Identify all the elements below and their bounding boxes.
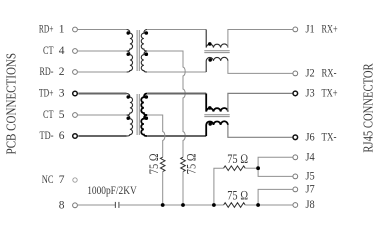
svg-text:RD-: RD- bbox=[40, 66, 54, 78]
terminal pin 6 bbox=[73, 134, 78, 139]
pin 4 CT label bbox=[43, 45, 65, 57]
svg-text:RD+: RD+ bbox=[39, 24, 54, 36]
svg-text:75 Ω: 75 Ω bbox=[146, 153, 161, 174]
label J2 RX- bbox=[306, 67, 337, 79]
T1 phase dot secondary top bbox=[145, 31, 149, 35]
pin 6 TD- label bbox=[40, 130, 65, 142]
choke L1 dot top bbox=[208, 42, 212, 46]
svg-text:J3: J3 bbox=[306, 87, 315, 99]
wire node to J4 and J5 bbox=[258, 157, 292, 176]
terminal pin 2 bbox=[73, 70, 78, 75]
T2 phase dot primary mid bbox=[126, 116, 129, 119]
T2 phase dot secondary mid bbox=[145, 116, 149, 120]
wire choke L2 to J6 bbox=[228, 125, 293, 137]
T2 phase dot primary top bbox=[126, 95, 129, 98]
pin 2 RD- label bbox=[40, 66, 65, 78]
junction dot R1 foot bbox=[161, 203, 165, 207]
svg-text:PCB CONNECTIONS: PCB CONNECTIONS bbox=[5, 53, 20, 155]
terminal pin 3 bbox=[73, 91, 78, 96]
label J6 TX- bbox=[306, 131, 337, 143]
terminal J6 bbox=[293, 135, 298, 140]
svg-text:CT: CT bbox=[43, 45, 54, 57]
wire node to J7 bbox=[258, 189, 292, 205]
svg-text:RX+: RX+ bbox=[322, 23, 338, 35]
wire T2 secondary top to choke L2 (bold) bbox=[147, 93, 206, 95]
transformer T2 secondary winding upper half (bold) bbox=[141, 94, 147, 116]
T1 phase dot primary mid bbox=[126, 52, 129, 55]
wire capacitor to ground rail bbox=[119, 204, 224, 206]
svg-text:TD-: TD- bbox=[40, 130, 54, 142]
wire pin8 to capacitor bbox=[78, 204, 116, 206]
choke L1 bottom winding bbox=[206, 57, 228, 72]
wire pin6 to T2 (bold) bbox=[78, 135, 126, 137]
wire pin5 to T2 CT bbox=[78, 114, 127, 116]
svg-text:1000pF/2KV: 1000pF/2KV bbox=[87, 185, 137, 197]
wire R3 to node bbox=[245, 167, 258, 169]
svg-text:J8: J8 bbox=[306, 199, 315, 211]
terminal pin 4 bbox=[73, 49, 78, 54]
wire T1 secondary CT down to R2 (with hops) bbox=[147, 51, 185, 157]
svg-text:7: 7 bbox=[59, 174, 65, 186]
capacitor C1 plates bbox=[115, 202, 119, 208]
junction dot R3 output node bbox=[256, 166, 260, 170]
svg-text:TX+: TX+ bbox=[322, 87, 338, 99]
resistor R2 75ohm vertical bbox=[181, 157, 186, 171]
svg-text:3: 3 bbox=[59, 88, 65, 100]
wire choke L1 to J1 bbox=[228, 30, 293, 48]
transformer T1 primary winding lower half bbox=[127, 51, 133, 72]
svg-text:6: 6 bbox=[59, 130, 65, 142]
terminal pin 7 NC bbox=[73, 178, 77, 182]
choke L1 top winding bbox=[206, 30, 228, 48]
resistor R4 75ohm horizontal bbox=[224, 203, 246, 208]
terminal J5 bbox=[293, 174, 298, 179]
wire T1 secondary top to choke L1 bbox=[147, 29, 206, 31]
wire pin1 to T1 bbox=[78, 29, 127, 31]
svg-text:J6: J6 bbox=[306, 131, 315, 143]
pin 5 CT label bbox=[43, 109, 65, 121]
transformer T2 primary winding lower half bbox=[127, 115, 133, 136]
transformer T2 secondary winding lower half (bold) bbox=[141, 115, 147, 136]
wire T2 secondary bottom to choke L2 (bold) bbox=[147, 135, 206, 137]
wire T1 secondary bottom to choke L1 bbox=[147, 71, 206, 73]
terminal J4 bbox=[293, 155, 298, 160]
svg-text:RJ45 CONNECTOR: RJ45 CONNECTOR bbox=[361, 63, 376, 153]
choke L2 top winding (bold) bbox=[206, 94, 228, 112]
T2 phase dot secondary top bbox=[145, 95, 149, 99]
junction dot J7 branch bbox=[256, 203, 260, 207]
pin 1 RD+ label bbox=[39, 24, 65, 36]
wire pin4 to T1 CT bbox=[78, 50, 127, 52]
choke L2 bottom winding (bold) bbox=[206, 121, 228, 136]
T1 phase dot secondary mid bbox=[145, 52, 149, 56]
svg-text:4: 4 bbox=[59, 45, 65, 57]
label J1 RX+ bbox=[306, 23, 338, 35]
wire T2 secondary CT down to R1 (with hop) bbox=[147, 115, 165, 157]
terminal J2 bbox=[293, 71, 298, 76]
svg-text:TD+: TD+ bbox=[39, 88, 54, 100]
svg-text:J1: J1 bbox=[306, 23, 315, 35]
svg-text:5: 5 bbox=[59, 109, 65, 121]
resistor R1 75ohm vertical bbox=[160, 157, 165, 171]
svg-text:75 Ω: 75 Ω bbox=[227, 187, 248, 202]
T1 phase dot primary top bbox=[126, 31, 129, 34]
svg-text:J5: J5 bbox=[306, 170, 315, 182]
svg-text:1: 1 bbox=[59, 24, 65, 36]
terminal pin 5 bbox=[73, 113, 78, 118]
wire choke L2 to J3 bbox=[228, 93, 293, 111]
svg-text:NC: NC bbox=[42, 174, 54, 186]
choke L2 dot bottom bbox=[208, 122, 212, 126]
wire choke L1 to J2 bbox=[228, 61, 293, 74]
choke L2 dot top bbox=[208, 106, 212, 110]
transformer T1 secondary winding upper half bbox=[141, 30, 147, 52]
svg-text:J4: J4 bbox=[306, 151, 315, 163]
pin 7 NC label bbox=[42, 174, 65, 186]
transformer T1 core bbox=[137, 30, 139, 71]
wire rail branch up to R3 bbox=[214, 168, 224, 205]
svg-text:75 Ω: 75 Ω bbox=[227, 151, 248, 166]
choke L1 core bbox=[204, 51, 229, 53]
transformer T1 secondary winding lower half bbox=[141, 51, 147, 72]
resistor R3 75ohm horizontal bbox=[224, 166, 246, 171]
terminal J7 bbox=[293, 187, 298, 192]
transformer T2 core bbox=[137, 94, 139, 135]
label J3 TX+ bbox=[306, 87, 338, 99]
svg-text:RX-: RX- bbox=[322, 67, 337, 79]
svg-text:CT: CT bbox=[43, 109, 54, 121]
junction dot R3 branch bbox=[212, 203, 216, 207]
wire R4 to J8 bbox=[245, 204, 292, 206]
transformer T1 primary winding upper half bbox=[127, 30, 133, 52]
wire pin2 to T1 bbox=[78, 71, 127, 73]
svg-text:2: 2 bbox=[59, 66, 65, 78]
svg-text:J2: J2 bbox=[306, 67, 315, 79]
svg-text:J7: J7 bbox=[306, 183, 315, 195]
wire pin3 to T2 (bold) bbox=[78, 93, 126, 95]
choke L1 dot bottom bbox=[208, 58, 212, 62]
svg-text:8: 8 bbox=[59, 199, 65, 211]
svg-text:75 Ω: 75 Ω bbox=[183, 153, 198, 174]
terminal pin 8 bbox=[73, 203, 78, 208]
choke L2 core bbox=[204, 115, 229, 117]
resistor R1 lower lead bbox=[162, 172, 164, 205]
transformer T2 primary winding upper half bbox=[127, 94, 133, 116]
svg-text:TX-: TX- bbox=[322, 131, 337, 143]
terminal J3 bbox=[293, 91, 298, 96]
terminal J1 bbox=[293, 27, 298, 32]
terminal J8 bbox=[293, 203, 298, 208]
resistor R2 lower lead bbox=[182, 172, 184, 205]
pin 3 TD+ label bbox=[39, 88, 65, 100]
terminal pin 1 bbox=[73, 27, 78, 32]
junction dot R2 foot bbox=[181, 203, 185, 207]
